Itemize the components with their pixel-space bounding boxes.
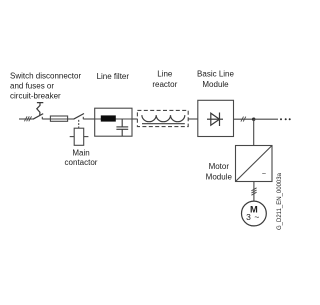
wire: motor module to motor — [253, 182, 255, 202]
dashed actuator link to contactor coil — [78, 120, 80, 128]
svg-text:Line filter: Line filter — [97, 72, 130, 81]
line filter capacitor — [116, 119, 128, 136]
wire: supply input — [19, 118, 33, 120]
svg-text:Module: Module — [206, 173, 233, 182]
motor module box (inverter) — [236, 146, 273, 182]
circuit-breaker mechanism zigzag and T-bar — [37, 103, 44, 116]
3-phase slash marks on motor wire — [251, 188, 256, 195]
svg-text:and fuses or: and fuses or — [10, 82, 54, 91]
line filter choke (filled block) — [101, 115, 116, 121]
svg-text:Motor: Motor — [209, 162, 230, 171]
svg-text:3: 3 — [246, 212, 251, 222]
label: switch disconnector and fuses or circuit-breaker — [10, 72, 81, 101]
wire: BLM output to DC junction — [234, 118, 254, 120]
wire: fuse to main contactor — [68, 118, 74, 120]
wire: reactor to basic line module — [188, 118, 198, 120]
node: DC bus junction — [252, 118, 255, 121]
svg-text:~: ~ — [262, 171, 266, 178]
wire: junction down to motor module — [253, 119, 255, 145]
rectifier diode — [207, 113, 223, 127]
main contactor contact blade — [74, 114, 85, 120]
line reactor dashed enclosure — [137, 110, 188, 126]
label: motor module — [206, 162, 233, 182]
DC bus slash marks — [241, 117, 246, 122]
wire: filter to line reactor — [132, 118, 137, 120]
svg-text:contactor: contactor — [65, 158, 98, 167]
line reactor core — [142, 123, 185, 125]
svg-text:Main: Main — [72, 148, 89, 157]
wire: DC bus continuation — [254, 118, 278, 120]
svg-text:G_D211_EN_00003a: G_D211_EN_00003a — [277, 172, 283, 230]
motor M 3~ — [242, 201, 267, 226]
wire: contactor to line filter — [83, 118, 94, 120]
wire through fuse — [50, 118, 67, 120]
3-phase slash marks on supply wire — [24, 116, 31, 121]
svg-text:Switch disconnector: Switch disconnector — [10, 72, 81, 81]
svg-text:~: ~ — [254, 212, 259, 222]
wire: switch to fuse — [42, 118, 50, 120]
line reactor winding — [142, 115, 185, 122]
switch disconnector blade — [33, 114, 43, 120]
label: main contactor — [65, 148, 98, 167]
label: basic line module — [197, 70, 234, 90]
ellipsis: bus continues — [280, 118, 291, 120]
fixed contact tick of switch disconnector — [41, 117, 43, 119]
svg-text:Basic Line: Basic Line — [197, 70, 234, 79]
wire through line filter — [95, 118, 132, 120]
svg-text:Module: Module — [202, 80, 229, 89]
fixed contact tick of main contactor — [82, 117, 84, 119]
fuse — [50, 116, 67, 121]
svg-text:reactor: reactor — [152, 80, 177, 89]
svg-text:Line: Line — [157, 70, 173, 79]
line filter box — [95, 108, 132, 136]
main contactor coil — [70, 128, 89, 145]
label: line reactor — [152, 70, 177, 90]
basic line module box — [198, 100, 234, 136]
svg-text:circuit-breaker: circuit-breaker — [10, 92, 61, 101]
